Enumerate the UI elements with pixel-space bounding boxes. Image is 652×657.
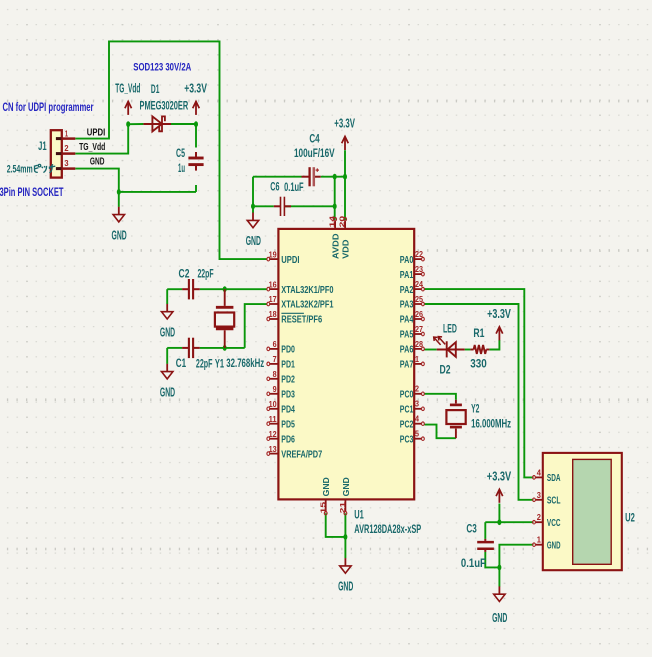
svg-text:+3.3V: +3.3V xyxy=(487,469,512,483)
U1 pin 2 PC0 xyxy=(400,384,425,401)
svg-text:2.54mm: 2.54mm xyxy=(7,163,33,175)
IC U1 AVR128DA28x-xSP body xyxy=(278,229,414,500)
power flag TG_Vdd at D1 anode xyxy=(115,82,140,115)
svg-text:10: 10 xyxy=(269,399,277,409)
U1 pin 8 PD2 xyxy=(267,369,295,386)
power flag +3.3V at R1 xyxy=(487,307,511,340)
node GND J1 xyxy=(117,189,121,195)
wire C5 bottom stub xyxy=(195,185,197,192)
wire C1 left down to GND xyxy=(166,348,168,364)
power flag +3.3V above U1 xyxy=(334,117,355,150)
wire to C6 left xyxy=(253,205,274,207)
ground GND under C4/C6 xyxy=(246,213,261,249)
node AVDD / C6 right xyxy=(333,203,337,209)
svg-text:16.000MHz: 16.000MHz xyxy=(471,417,511,431)
svg-text:9: 9 xyxy=(273,384,277,394)
svg-text:3: 3 xyxy=(537,490,541,500)
svg-text:C5: C5 xyxy=(176,146,185,160)
svg-text:VDD: VDD xyxy=(341,240,350,259)
U2 pin 4 SDA xyxy=(533,467,561,484)
svg-text:3Pin PIN SOCKET: 3Pin PIN SOCKET xyxy=(0,185,64,199)
capacitor C4 polarized xyxy=(302,167,321,186)
capacitor C6 xyxy=(274,197,291,216)
U1 pin 10 PD4 xyxy=(267,399,295,416)
wire C4 right to +3.3V rail xyxy=(321,176,345,178)
svg-text:PC0: PC0 xyxy=(400,389,414,401)
svg-text:19: 19 xyxy=(269,249,277,259)
U1 pin 17 XTAL32K2/PF1 xyxy=(267,294,334,311)
wire U1 GND pin15 xyxy=(326,513,346,537)
svg-text:R1: R1 xyxy=(473,326,484,340)
svg-text:1: 1 xyxy=(415,354,419,364)
svg-text:GND: GND xyxy=(160,325,175,339)
U1 pin 18 RESET/PF6 xyxy=(267,309,322,326)
svg-text:C3: C3 xyxy=(466,522,477,536)
svg-text:330: 330 xyxy=(470,356,487,370)
ground GND under C1 xyxy=(160,364,175,400)
wire D1 cathode to +3.3V node xyxy=(171,123,196,125)
svg-text:PA1: PA1 xyxy=(400,269,414,281)
U1 RESET overbar xyxy=(281,312,304,314)
node VCC +3.3V / C3 xyxy=(497,519,501,525)
wire C4 left down xyxy=(252,177,254,207)
svg-text:PA2: PA2 xyxy=(400,284,414,296)
U1 pin 11 PD5 xyxy=(267,414,295,431)
ground GND under J1 xyxy=(112,207,127,243)
node U1 GND pins xyxy=(343,534,347,540)
svg-text:RESET/PF6: RESET/PF6 xyxy=(281,314,322,326)
svg-text:SDA: SDA xyxy=(547,472,561,484)
svg-text:23: 23 xyxy=(415,264,423,274)
svg-text:UPDI: UPDI xyxy=(281,254,299,266)
U2 pin 2 VCC xyxy=(533,512,561,529)
svg-text:PA4: PA4 xyxy=(400,314,414,326)
wire VCC node to C3 top xyxy=(484,522,486,539)
wire U1 PA6 to LED D2 xyxy=(425,349,437,351)
svg-text:+3.3V: +3.3V xyxy=(487,307,511,321)
svg-text:GND: GND xyxy=(547,539,561,551)
U2 pin 3 SCL xyxy=(533,490,561,507)
svg-text:AVDD: AVDD xyxy=(331,233,340,259)
svg-text:0.1uF: 0.1uF xyxy=(284,180,304,194)
wire C3 bottom to GND node xyxy=(485,552,499,568)
svg-text:PA7: PA7 xyxy=(400,359,414,371)
U1 pin 4 PC2 xyxy=(400,414,425,431)
U1 pin 12 PD6 xyxy=(267,429,295,446)
svg-text:100uF/16V: 100uF/16V xyxy=(294,146,335,160)
U1 pin 20 VDD xyxy=(338,216,351,259)
svg-text:GND: GND xyxy=(112,228,127,242)
svg-text:GND: GND xyxy=(90,157,105,168)
U1 pin 19 UPDI xyxy=(267,249,300,266)
svg-text:PA3: PA3 xyxy=(400,299,414,311)
svg-text:18: 18 xyxy=(269,309,277,319)
svg-text:GND: GND xyxy=(246,234,261,248)
ground GND under U1 xyxy=(338,558,353,594)
svg-text:C4: C4 xyxy=(309,131,320,145)
svg-text:0.1uF: 0.1uF xyxy=(461,556,486,570)
U1 pin 5 PC3 xyxy=(400,429,425,446)
svg-text:PD1: PD1 xyxy=(281,359,295,371)
U1 pin 1 PA7 xyxy=(400,354,425,371)
diode D1 PMEG3020ER xyxy=(143,116,171,131)
wire +3.3V arrow to VCC node xyxy=(498,504,500,523)
svg-text:PD3: PD3 xyxy=(281,389,295,401)
svg-text:20: 20 xyxy=(338,216,347,228)
U2 display window xyxy=(573,459,612,564)
wire C6 right to AVDD node xyxy=(285,205,335,207)
ground GND under C2 xyxy=(160,304,175,340)
node XTAL32K1 / Y1 top xyxy=(223,286,227,292)
svg-text:GND: GND xyxy=(492,611,507,625)
svg-text:U1: U1 xyxy=(354,508,364,522)
svg-text:2: 2 xyxy=(537,512,541,522)
capacitor C1 xyxy=(182,338,200,358)
svg-text:15: 15 xyxy=(318,502,327,514)
wire D1 anode xyxy=(128,123,143,125)
wire U1 PC0 to Y2 top xyxy=(425,394,456,400)
svg-text:PA5: PA5 xyxy=(400,329,414,341)
svg-text:PD0: PD0 xyxy=(281,344,295,356)
svg-text:VREFA/PD7: VREFA/PD7 xyxy=(281,448,322,460)
svg-text:Y2: Y2 xyxy=(471,402,479,416)
wire +3.3V arrow down xyxy=(344,150,346,177)
svg-text:2: 2 xyxy=(415,384,419,394)
svg-text:3: 3 xyxy=(415,399,419,409)
crystal Y2 xyxy=(446,400,465,438)
node GND / C6 left xyxy=(251,203,255,209)
U1 pin 26 PA4 xyxy=(400,309,425,326)
wire down to GND symbol xyxy=(252,206,254,213)
svg-text:C6: C6 xyxy=(270,180,279,194)
svg-text:D1: D1 xyxy=(151,82,160,96)
U1 pin 16 XTAL32K1/PF0 xyxy=(267,279,334,296)
svg-text:PD2: PD2 xyxy=(281,374,295,386)
svg-text:PD4: PD4 xyxy=(281,404,295,416)
capacitor C5 xyxy=(188,152,203,171)
ground GND under C3/U2 xyxy=(492,586,507,625)
U1 pin 22 PA0 xyxy=(400,249,425,266)
wire TG_Vdd net J1.2 to D1 anode xyxy=(75,124,128,153)
wire +3.3V to U1 VDD pin20 xyxy=(344,177,346,220)
svg-text:VCC: VCC xyxy=(547,517,561,529)
node GND U2 / C3 xyxy=(497,565,501,571)
svg-text:4: 4 xyxy=(537,467,541,477)
svg-text:1: 1 xyxy=(537,535,541,545)
wire GND net J1.3 xyxy=(75,169,119,192)
svg-text:32.768kHz: 32.768kHz xyxy=(226,356,264,370)
U1 pin 24 PA2 xyxy=(400,279,425,296)
svg-text:3: 3 xyxy=(64,158,68,168)
svg-text:1u: 1u xyxy=(178,161,185,175)
U1 pin 13 VREFA/PD7 xyxy=(267,444,322,461)
svg-text:SOD123 30V/2A: SOD123 30V/2A xyxy=(133,61,191,73)
U1 pin 25 PA3 xyxy=(400,294,425,311)
svg-text:11: 11 xyxy=(269,414,277,424)
node AVDD / C4 xyxy=(333,174,337,180)
svg-text:UPDI: UPDI xyxy=(87,128,106,139)
svg-text:GND: GND xyxy=(342,477,351,496)
U1 pin 7 PD1 xyxy=(267,354,295,371)
wire R1 to +3.3V xyxy=(489,340,499,350)
svg-text:22: 22 xyxy=(415,249,423,259)
U1 pin 9 PD3 xyxy=(267,384,295,401)
svg-text:C1: C1 xyxy=(176,356,187,370)
U1 pin 6 PD0 xyxy=(267,339,295,356)
svg-text:22pF: 22pF xyxy=(197,266,213,280)
svg-text:PC3: PC3 xyxy=(400,433,414,445)
svg-text:SCL: SCL xyxy=(547,495,561,507)
node TG_Vdd / D1 anode xyxy=(126,121,130,127)
svg-text:28: 28 xyxy=(415,339,423,349)
svg-text:13: 13 xyxy=(269,444,277,454)
svg-text:16: 16 xyxy=(269,279,277,289)
U1 pin 28 PA6 xyxy=(400,339,425,356)
wire Y2 bottom to U1 PC2 xyxy=(425,425,456,439)
svg-text:1: 1 xyxy=(65,128,68,138)
wire C5 bottom to GND node xyxy=(119,191,196,193)
svg-text:22pF: 22pF xyxy=(196,357,213,371)
svg-text:LED: LED xyxy=(443,321,457,335)
wire C2 right to U1 XTAL32K1 pin16 xyxy=(200,288,267,290)
svg-text:XTAL32K1/PF0: XTAL32K1/PF0 xyxy=(281,284,333,296)
svg-text:PMEG3020ER: PMEG3020ER xyxy=(140,99,189,113)
wire C1 left xyxy=(167,347,182,349)
wire +3.3V node to C5 top xyxy=(195,124,197,147)
wire D2 to R1 xyxy=(465,349,471,351)
U1 pin 3 PC1 xyxy=(400,399,425,416)
wire UPDI net J1.1 to U1.19 xyxy=(75,41,266,259)
svg-text:2: 2 xyxy=(64,143,68,153)
svg-text:AVR128DA28x-xSP: AVR128DA28x-xSP xyxy=(354,522,421,536)
U1 pin 14 AVDD xyxy=(328,215,341,259)
svg-text:+3.3V: +3.3V xyxy=(184,82,207,96)
wire Y1 bottom to U1 XTAL32K2 pin17 xyxy=(245,304,267,348)
wire AVDD rail vertical xyxy=(334,177,336,207)
svg-text:7: 7 xyxy=(273,354,277,364)
svg-text:PD5: PD5 xyxy=(281,418,295,430)
U1 pin 23 PA1 xyxy=(400,264,425,281)
LED D2 xyxy=(434,337,465,358)
node VDD +3.3V rail xyxy=(343,174,347,180)
wire U2 GND pin to GND node xyxy=(499,545,533,568)
power flag +3.3V at D1 cathode xyxy=(184,82,207,115)
power flag +3.3V at U2 VCC xyxy=(487,469,512,502)
svg-text:12: 12 xyxy=(269,429,277,439)
svg-text:5: 5 xyxy=(415,429,419,439)
node XTAL32K2 / Y1 bottom xyxy=(223,345,227,351)
svg-text:GND: GND xyxy=(160,385,175,399)
wire SCL net U1 PA3 to U2.3 xyxy=(425,304,534,500)
svg-text:TG_Vdd: TG_Vdd xyxy=(79,142,105,153)
U1 pin 21 GND xyxy=(338,477,351,515)
svg-text:TG_Vdd: TG_Vdd xyxy=(115,82,140,96)
svg-text:CN for UDPI programmer: CN for UDPI programmer xyxy=(3,100,94,114)
crystal Y1 xyxy=(215,289,234,348)
wire GND node down xyxy=(118,192,120,207)
connector J1 xyxy=(51,130,76,177)
svg-text:C2: C2 xyxy=(179,266,190,280)
svg-text:J1: J1 xyxy=(38,139,47,153)
wire SDA net U1 PA2 to U2.4 xyxy=(425,289,534,477)
node +3.3V / D1 cathode / C5 xyxy=(194,121,198,127)
resistor R1 xyxy=(470,345,489,354)
wire C2 left down to GND xyxy=(166,289,168,304)
svg-text:XTAL32K2/PF1: XTAL32K2/PF1 xyxy=(281,299,333,311)
svg-text:PA0: PA0 xyxy=(400,254,414,266)
svg-text:PD6: PD6 xyxy=(281,433,295,445)
svg-text:D2: D2 xyxy=(440,362,451,376)
module U2 body xyxy=(543,453,622,570)
svg-text:24: 24 xyxy=(415,279,423,289)
U1 pin 15 GND xyxy=(318,477,331,515)
svg-text:17: 17 xyxy=(269,294,277,304)
svg-text:26: 26 xyxy=(415,309,423,319)
capacitor C3 xyxy=(477,539,494,552)
svg-text:21: 21 xyxy=(338,502,347,514)
wire AVDD node to U1 pin14 xyxy=(334,206,336,220)
wire VCC to U2.2 xyxy=(485,521,533,523)
svg-text:PA6: PA6 xyxy=(400,344,414,356)
U1 pin 27 PA5 xyxy=(400,324,425,341)
U2 pin 1 GND xyxy=(533,535,561,552)
wire GND node down xyxy=(498,567,500,586)
svg-text:8: 8 xyxy=(273,369,277,379)
svg-text:PC1: PC1 xyxy=(400,404,414,416)
svg-text:GND: GND xyxy=(338,580,353,594)
svg-text:4: 4 xyxy=(415,414,419,424)
svg-text:GND: GND xyxy=(322,477,331,496)
svg-text:6: 6 xyxy=(273,339,277,349)
svg-text:14: 14 xyxy=(328,215,337,228)
svg-text:27: 27 xyxy=(415,324,423,334)
svg-text:U2: U2 xyxy=(625,510,635,524)
svg-text:25: 25 xyxy=(415,294,423,304)
wire U1 GND pin21 down xyxy=(344,513,346,558)
svg-text:+3.3V: +3.3V xyxy=(334,117,355,131)
svg-text:PC2: PC2 xyxy=(400,418,414,430)
wire C2 left xyxy=(167,288,182,290)
wire C1 right / Y1 bottom node xyxy=(200,347,245,349)
wire GND rail to C4 left xyxy=(253,176,302,178)
capacitor C2 xyxy=(182,279,200,299)
svg-text:Y1: Y1 xyxy=(215,356,224,370)
